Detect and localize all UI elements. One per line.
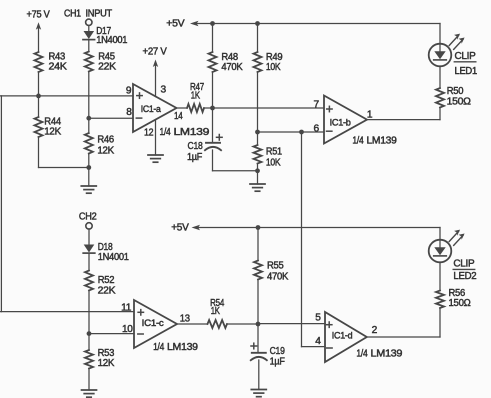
wire node F to C19 — [257, 324, 259, 353]
svg-text:22K: 22K — [98, 61, 116, 72]
wire R45 to node B — [88, 72, 90, 119]
svg-text:1/4: 1/4 — [160, 127, 172, 138]
op-amp U IC1-c — [134, 300, 177, 348]
svg-text:R51: R51 — [266, 146, 283, 157]
node D junction pin 6 — [255, 130, 260, 135]
svg-text:R52: R52 — [98, 275, 115, 286]
junction R44/R46 ground node — [86, 165, 91, 170]
svg-text:C18: C18 — [188, 141, 204, 152]
svg-text:12K: 12K — [44, 127, 61, 138]
wire pin 7 (node C to IC1-b +) — [213, 107, 325, 109]
op-amp U IC1-d — [325, 312, 367, 362]
svg-text:7: 7 — [314, 99, 320, 110]
wire +5V to LED2 — [439, 228, 441, 248]
op-amp U IC1-a — [133, 84, 177, 132]
svg-text:24K: 24K — [49, 61, 68, 72]
power +27V with pin 3 wire — [143, 47, 167, 97]
svg-text:CLIP: CLIP — [455, 51, 476, 62]
node CH2 terminal — [79, 211, 97, 229]
svg-text:1: 1 — [367, 109, 373, 120]
node C junction R47/R48/C18/pin7 — [210, 106, 215, 111]
wire terminal to D18 — [88, 229, 90, 245]
svg-text:R55: R55 — [267, 261, 284, 272]
wire R55 to node F — [257, 280, 259, 325]
svg-text:CH1: CH1 — [64, 9, 81, 20]
capacitor C19 — [251, 343, 285, 367]
wire threshold bus vertical — [0, 96, 2, 312]
wire R43 to node A — [38, 72, 40, 96]
svg-text:470K: 470K — [221, 62, 242, 73]
ground below C19 — [251, 390, 266, 397]
svg-text:LM139: LM139 — [167, 342, 198, 353]
wire R53 to ground — [88, 369, 90, 391]
LED LED1 — [429, 34, 465, 67]
wire LED1 to R50 — [439, 67, 441, 89]
wire R44 bottom to ground junction — [38, 137, 40, 168]
wire D18 to R52 — [88, 253, 90, 270]
svg-text:12K: 12K — [97, 146, 114, 157]
wire R52 to pin 10 node — [88, 291, 90, 334]
wire R54 to node F — [227, 323, 258, 325]
resistor R56 — [436, 288, 471, 309]
svg-text:22K: 22K — [98, 285, 116, 296]
wire R51 to ground — [257, 164, 259, 185]
wire C19 to ground — [258, 360, 260, 390]
junction +5V rail / R55 — [256, 225, 261, 230]
node B junction pin8 — [86, 116, 91, 121]
power +5V bottom rail — [171, 222, 440, 233]
svg-text:1/4: 1/4 — [356, 349, 368, 360]
svg-text:11: 11 — [121, 303, 132, 314]
LED LED2 — [429, 230, 465, 263]
wire C18 to R51 ground junction — [212, 150, 214, 171]
junction +5V rail / R48 — [210, 21, 215, 26]
svg-text:10K: 10K — [266, 157, 281, 168]
power +5V top rail — [166, 19, 440, 30]
resistor R52 — [85, 271, 116, 297]
svg-text:IC1-b: IC1-b — [330, 117, 351, 128]
wire IC1-c output to R54 — [177, 323, 208, 325]
svg-text:+5V: +5V — [171, 222, 189, 233]
wire pin 11 (bus to IC1-c +) — [0, 311, 134, 313]
svg-text:LED1: LED1 — [455, 66, 478, 77]
svg-text:150Ω: 150Ω — [447, 97, 472, 108]
svg-text:150Ω: 150Ω — [449, 298, 472, 309]
svg-text:1N4001: 1N4001 — [96, 35, 128, 46]
svg-text:13: 13 — [180, 314, 191, 325]
svg-text:12K: 12K — [98, 358, 115, 369]
node CH1 INPUT terminal — [64, 9, 112, 26]
wire IC1-d output to LED2 column — [367, 336, 440, 338]
svg-text:IC1-d: IC1-d — [332, 331, 353, 342]
wire pin 5 (node F to IC1-d +) — [258, 323, 325, 325]
svg-text:+75 V: +75 V — [27, 10, 50, 21]
svg-text:1K: 1K — [211, 306, 220, 317]
svg-text:LM139: LM139 — [174, 127, 210, 138]
wire R48 to node C — [212, 72, 214, 108]
svg-text:2: 2 — [372, 325, 378, 336]
resistor R55 — [254, 228, 288, 283]
resistor R47 — [187, 82, 204, 112]
wire pin 10 (node E to IC1-c -) — [89, 333, 134, 335]
svg-text:LM139: LM139 — [367, 135, 398, 146]
svg-text:12: 12 — [144, 128, 154, 139]
wire IC1-a output to R47 — [177, 107, 188, 109]
wire R49 to pin 6 node — [257, 72, 259, 132]
svg-text:1/4: 1/4 — [352, 135, 364, 146]
svg-text:6: 6 — [314, 123, 320, 134]
svg-text:10: 10 — [122, 324, 133, 335]
label CLIP LED1 — [454, 51, 477, 77]
wire pin 9 (node A to IC1-a +) — [0, 95, 133, 97]
wire IC1-b output to LED column — [367, 119, 440, 121]
svg-text:10K: 10K — [266, 62, 281, 73]
resistor R45 — [85, 52, 116, 73]
diode D17 — [83, 26, 128, 46]
svg-text:8: 8 — [126, 107, 132, 118]
wire IC1-b minus node to IC1-d minus — [301, 132, 303, 347]
svg-text:CH2: CH2 — [79, 211, 97, 222]
svg-text:14: 14 — [174, 111, 183, 122]
svg-text:3: 3 — [161, 85, 167, 96]
svg-text:4: 4 — [315, 336, 321, 347]
svg-text:+5V: +5V — [166, 19, 185, 30]
ground below R53 — [82, 390, 97, 397]
wire pin 12 to ground — [155, 120, 157, 155]
resistor R48 — [209, 24, 243, 74]
wire D17 to R45 — [88, 40, 90, 52]
svg-text:LM139: LM139 — [371, 349, 403, 360]
junction R51/C18 ground node — [255, 168, 260, 173]
resistor R43 — [35, 52, 68, 73]
junction +5V rail / R49 — [255, 21, 260, 26]
svg-text:R50: R50 — [447, 86, 464, 97]
svg-text:1µF: 1µF — [270, 356, 285, 367]
svg-text:1N4001: 1N4001 — [98, 252, 130, 263]
resistor R54 — [208, 298, 227, 328]
wire node C to C18 — [212, 108, 214, 143]
svg-text:R46: R46 — [97, 134, 114, 145]
svg-text:9: 9 — [126, 85, 132, 96]
diode D18 — [83, 242, 129, 263]
svg-text:5: 5 — [315, 312, 321, 323]
resistor R53 — [85, 334, 115, 369]
wire pin 6 (node D to IC1-b -) — [258, 131, 325, 133]
svg-text:IC1-a: IC1-a — [141, 104, 162, 115]
svg-text:IC1-c: IC1-c — [142, 318, 164, 329]
node A junction — [36, 94, 41, 99]
svg-text:1K: 1K — [191, 91, 200, 102]
label CLIP LED2 — [453, 259, 477, 282]
svg-text:INPUT: INPUT — [86, 9, 112, 20]
junction pin6 / vertical to IC1-d — [299, 130, 304, 135]
wire R46 to ground — [88, 154, 90, 187]
wire R47 to node C — [204, 107, 213, 109]
capacitor C18 — [187, 135, 222, 163]
svg-text:CLIP: CLIP — [453, 259, 474, 270]
ground below R46 — [81, 186, 96, 193]
node F junction R54/R55/C19/pin5 — [256, 322, 261, 327]
resistor R50 — [436, 86, 471, 108]
wire +5V to LED1 — [439, 24, 441, 52]
resistor R44 — [35, 96, 62, 138]
svg-text:+27 V: +27 V — [143, 47, 167, 58]
ground below IC1-a pin 12 — [148, 155, 163, 162]
node E junction pin 10 — [87, 331, 92, 336]
op-amp U IC1-b — [324, 96, 367, 144]
wire terminal to D17 — [88, 25, 90, 31]
resistor R46 — [85, 118, 115, 156]
svg-text:1µF: 1µF — [187, 152, 202, 163]
wire LED2 to R56 — [439, 263, 441, 291]
svg-text:470K: 470K — [267, 272, 288, 283]
resistor R49 — [254, 24, 283, 74]
svg-text:1/4: 1/4 — [153, 342, 165, 353]
resistor R51 — [254, 132, 283, 168]
ground below R51 — [250, 184, 265, 191]
svg-text:LED2: LED2 — [453, 271, 477, 282]
wire pin 8 (node B to IC1-a -) — [89, 117, 133, 119]
power +75V — [27, 10, 50, 52]
